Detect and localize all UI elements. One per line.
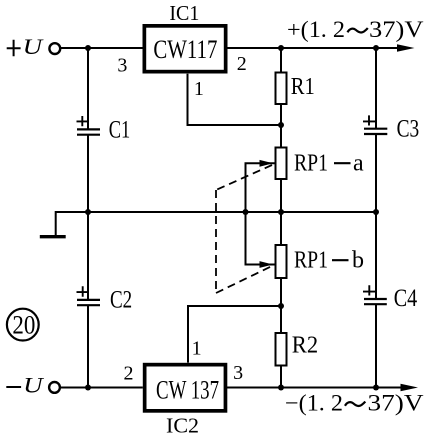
node junction mid chain [278,209,284,215]
wire IC2 pin1 [188,306,281,363]
svg-text:C4: C4 [394,285,418,312]
node junction C3 top [373,45,379,51]
node junction bottom-left [85,385,91,391]
svg-text:RP1: RP1 [294,248,328,274]
capacitor C2 [77,299,100,301]
svg-text:U: U [23,34,45,59]
svg-text:CW 137: CW 137 [156,376,219,405]
wire R1 bottom lead [280,104,282,148]
resistor R1 [276,73,287,105]
output arrow - [401,384,419,392]
capacitor C4 [364,298,387,300]
regulator IC1 CW117 [144,26,225,72]
svg-text:U: U [23,373,45,398]
wire right column bottom (C4 to bottom rail) [375,304,377,387]
svg-text:IC2: IC2 [166,414,199,438]
node junction R2 bottom [278,385,284,391]
resistor R2 [276,333,287,366]
terminal -U [49,382,60,393]
node junction wiper/mid rail [243,209,249,215]
wire top rail right (IC1 pin2 to output) [228,47,408,49]
wire top rail left (+U to IC1 pin3) [61,47,143,49]
svg-text:2: 2 [237,53,247,75]
wire C1 to mid rail [87,135,89,212]
node junction mid rail right [373,209,379,215]
potentiometer RP1-b [276,245,287,278]
wire R2 bottom lead [280,366,282,388]
regulator IC2 CW137 [145,365,226,411]
C4 polarity + [363,285,375,295]
potentiometer RP1-a [276,148,287,180]
svg-text:R2: R2 [292,333,318,359]
svg-text:1: 1 [192,337,202,359]
ground [40,235,66,238]
wire bottom rail left (-U to IC2 pin2) [60,387,143,389]
node junction ground [85,209,91,215]
svg-text:1: 1 [194,78,204,100]
wire left column bottom (mid rail to C2) [87,212,89,300]
svg-text:R1: R1 [291,74,315,100]
mechanical coupling dashed link [216,165,272,293]
wire R1 top lead [280,48,282,73]
capacitor C3 [364,128,387,130]
svg-text:C1: C1 [109,117,131,144]
terminal +U [49,43,60,54]
svg-text:20: 20 [12,311,35,340]
wire RP1-b bottom lead [280,278,282,333]
C1 polarity + [77,116,89,126]
svg-text:C2: C2 [110,287,132,314]
svg-text:37)V: 37)V [368,391,424,416]
wire right column top (rail to C3) [375,48,377,129]
output arrow + [397,44,415,52]
figure number 20 [7,309,39,341]
node junction pin1/R2 [278,303,284,309]
svg-text:CW117: CW117 [153,35,217,64]
node junction pin1/R1 [278,122,284,128]
svg-text:RP1: RP1 [294,151,328,177]
label -U [6,386,21,388]
C3 polarity + [363,115,375,125]
label +U [7,40,21,57]
wire left column top (+U node to C1) [87,48,89,129]
wire IC1 pin1 [188,74,282,125]
wire mid rail [88,211,376,213]
wire wiper link [246,163,277,264]
svg-text:−(1. 2: −(1. 2 [285,391,343,416]
wiper arrow RP1-a [260,160,274,167]
capacitor C1 [77,128,100,130]
svg-text:IC1: IC1 [169,1,199,25]
wiper arrow RP1-b [260,261,274,268]
node junction R1 top [278,45,284,51]
wire to ground [56,212,88,235]
wire bottom rail right (IC2 pin3 to output) [226,387,411,389]
svg-text:2: 2 [124,363,134,385]
svg-text:3: 3 [233,362,243,384]
svg-text:+(1. 2: +(1. 2 [287,17,345,42]
wire C2 to bottom rail [87,305,89,387]
svg-text:37)V: 37)V [369,17,424,42]
node junction C4 bottom [373,385,379,391]
wire right column middle (C3 to C4) [375,134,377,299]
svg-text:C3: C3 [397,116,420,143]
wire RP1-a to mid rail [280,179,282,245]
svg-text:3: 3 [117,55,127,77]
node junction top-left [85,45,91,51]
svg-text:b: b [352,248,364,274]
C2 polarity + [77,286,89,297]
svg-text:a: a [353,151,364,177]
